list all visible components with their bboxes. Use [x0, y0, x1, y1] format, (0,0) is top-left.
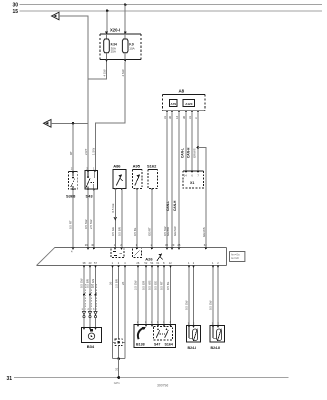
svg-text:2.5 SW: 2.5 SW: [134, 280, 138, 290]
module A79: [170, 100, 178, 107]
wire label S162 to bus: [148, 227, 152, 236]
wire label CAN-L lower: [166, 201, 170, 211]
blower B138 with switches S47 S164: [134, 325, 176, 348]
inline connectors B34 wires: [82, 312, 97, 318]
off-page arrow (top): [52, 12, 60, 20]
connector block on bus 2: [133, 249, 142, 258]
svg-text:0.5 BL: 0.5 BL: [133, 227, 137, 236]
wire A8 pin36 to X1: [185, 113, 187, 171]
svg-text:0.5 GN: 0.5 GN: [91, 279, 95, 288]
svg-text:CAN-L: CAN-L: [180, 148, 184, 158]
wire bus to B24-I pin1: [188, 268, 190, 326]
wire A8 pin14 to bus: [178, 113, 180, 248]
fuse F.9: [122, 34, 134, 60]
svg-text:30: 30: [12, 3, 18, 9]
node splice junction: [117, 357, 120, 360]
svg-text:CAN-H: CAN-H: [173, 200, 177, 211]
wire label CAN-H lower: [173, 200, 177, 211]
temperature sensor B24-I: [187, 322, 201, 350]
svg-text:0.5 GR: 0.5 GR: [142, 281, 146, 290]
svg-text:X1: X1: [190, 181, 194, 185]
wire label fuse F.9 output: [121, 69, 125, 76]
wire S162 to bus: [151, 189, 153, 248]
wire label S368 to bus: [69, 220, 73, 229]
wire S43 pin3 to bus: [93, 189, 95, 248]
node 15 rail label: [12, 9, 18, 15]
node 31 rail label: [6, 376, 12, 382]
wire splice to ground rail: [118, 359, 120, 378]
svg-text:0.5 BR: 0.5 BR: [118, 227, 122, 236]
wire A8 pin31 to bus: [166, 113, 168, 248]
svg-text:S368: S368: [66, 193, 76, 198]
node junction on rail 15: [106, 10, 109, 13]
pin arrows fuse box bottom: [105, 60, 127, 62]
svg-text:Am=Ga: Am=Ga: [231, 254, 240, 257]
actuation arrow K: [157, 254, 163, 261]
wire bus to B138 pin5: [163, 268, 165, 325]
temperature sensor B24-II: [210, 322, 225, 350]
wire label A86 pin2 lower: [118, 227, 122, 236]
svg-text:26: 26: [108, 281, 112, 285]
node 30 rail label: [12, 3, 18, 9]
svg-text:tie=GD: tie=GD: [231, 257, 239, 260]
ground point label GP1: [114, 381, 120, 385]
wire bus to B34 pin3: [95, 268, 97, 328]
shield dashes B34 wires: [85, 284, 97, 310]
wire rail30 to fuse F.9: [124, 5, 126, 34]
pin numbers B34 connectors: [82, 308, 96, 311]
wire bus to splice right: [124, 268, 126, 359]
svg-text:2.5 SW: 2.5 SW: [89, 219, 93, 229]
connector X1: [183, 171, 204, 188]
switch S368: [66, 167, 77, 199]
fuse F.34: [104, 34, 117, 60]
svg-text:CAN-L: CAN-L: [166, 201, 170, 211]
svg-text:0.5 WS: 0.5 WS: [148, 280, 152, 290]
wire labels B24-I drops: [185, 300, 189, 310]
label A26: [145, 256, 153, 261]
wire node to S368: [72, 123, 74, 171]
svg-text:X20-I: X20-I: [110, 28, 120, 33]
svg-text:26: 26: [121, 281, 125, 285]
wire middle arrow horizontal: [51, 122, 88, 124]
wire A95 to bus: [136, 189, 138, 249]
wire label fuse F.34 output: [103, 69, 107, 76]
switch S43: [85, 167, 98, 199]
clock B34: [82, 328, 102, 349]
node dots B34 wires: [83, 294, 97, 296]
control unit A8: [163, 89, 205, 111]
svg-text:GE/BR: GE/BR: [166, 227, 170, 236]
pin arrows bus bottom: [83, 266, 220, 268]
svg-text:0.5 GE: 0.5 GE: [111, 203, 115, 212]
wire label CAN-H color: [173, 226, 177, 236]
svg-text:RT: RT: [69, 151, 73, 155]
svg-text:15: 15: [12, 9, 18, 15]
connector block on bus 1: [111, 249, 124, 258]
pin arrows fuse box top: [105, 32, 127, 34]
wire bus to B34 pin2: [89, 268, 91, 328]
svg-text:0.5 RT: 0.5 RT: [69, 220, 73, 229]
wire from top arrow to node: [59, 16, 88, 170]
svg-text:GP1: GP1: [114, 381, 120, 385]
svg-text:2 RT: 2 RT: [84, 149, 88, 155]
wire bus to B24-I pin2: [193, 268, 195, 326]
wire splice merge: [113, 358, 126, 360]
svg-text:A86: A86: [113, 164, 121, 169]
svg-text:4 SW: 4 SW: [121, 69, 125, 76]
svg-text:A79: A79: [171, 102, 177, 106]
svg-text:B34: B34: [87, 344, 95, 349]
switch A95: [133, 164, 143, 191]
wire bus to B138 pin2: [137, 268, 139, 325]
svg-text:0.5 SW: 0.5 SW: [185, 300, 189, 310]
svg-text:GE/SW: GE/SW: [173, 226, 177, 236]
wire label A86 pin1 lower: [111, 227, 115, 236]
wire label A8 pin31 lower: [163, 226, 167, 236]
svg-text:0.5 SW: 0.5 SW: [209, 300, 213, 310]
wire label CAN-L upper: [180, 148, 184, 158]
svg-text:1 SW: 1 SW: [91, 148, 95, 155]
svg-text:2.5 BR: 2.5 BR: [115, 279, 119, 288]
wire rail 31 ground: [14, 377, 289, 379]
wire label A95 to bus: [133, 227, 137, 236]
svg-text:B24-I: B24-I: [188, 346, 197, 350]
wire label S43 pin2 drop: [84, 149, 88, 155]
wire rail 30: [20, 4, 323, 6]
svg-text:0.5 SW: 0.5 SW: [80, 278, 84, 288]
node junction on rail 30: [124, 3, 127, 6]
wire bus to B24-II pin1: [212, 268, 214, 326]
svg-text:S47: S47: [154, 343, 160, 347]
svg-text:B138: B138: [136, 343, 145, 347]
splice box: [113, 339, 126, 359]
wire A86 pin1 to bus: [115, 189, 117, 249]
switch S162: [147, 164, 158, 191]
svg-text:A8: A8: [179, 89, 185, 94]
svg-text:0.5 GE: 0.5 GE: [154, 281, 158, 290]
wire pin7 jog to bus: [198, 147, 206, 247]
pin numbers bus bottom: [83, 261, 220, 265]
svg-text:30079d: 30079d: [157, 384, 168, 388]
diagram number label: [157, 384, 168, 388]
wire label pin7 jog: [202, 227, 206, 237]
svg-text:4 SW: 4 SW: [103, 69, 107, 76]
svg-text:0.5 SW: 0.5 SW: [84, 219, 88, 229]
wire bus to B138 pin3: [157, 268, 159, 325]
wire A86 pin2 to bus: [121, 189, 123, 249]
wire label ground drop: [114, 367, 118, 371]
svg-text:A120: A120: [185, 102, 193, 106]
connector chevron on A86 wire: [114, 217, 117, 220]
svg-text:0.5 BR: 0.5 BR: [86, 279, 90, 288]
wire bus to splice mid: [118, 268, 120, 339]
wire fuse F.9 output jog: [95, 62, 125, 171]
wire label S368 drop: [69, 151, 73, 155]
svg-text:31: 31: [6, 376, 12, 382]
switch A86: [113, 164, 126, 191]
svg-text:0.5 RT: 0.5 RT: [160, 281, 164, 290]
pin numbers B138: [137, 321, 172, 324]
pin numbers A8: [163, 116, 198, 119]
module A120: [183, 100, 195, 107]
wire labels B138 drops: [134, 280, 171, 290]
node junction ground GP1: [117, 376, 120, 379]
wire A8 pin30b to X1: [191, 113, 193, 171]
wire label S43 pin6 to bus: [84, 219, 88, 229]
wire A8 pin3 to X1: [197, 113, 199, 171]
wire A8 pin30 to bus: [171, 113, 173, 248]
pin arrows bus top: [72, 248, 208, 250]
wire label S43 pin1 drop: [91, 148, 95, 155]
wire label CAN-H upper: [186, 147, 190, 158]
wire labels B24-II drops: [209, 300, 213, 310]
node junction to S368: [72, 122, 75, 125]
wire label pin3 upper: [192, 148, 196, 158]
svg-text:GR/WS: GR/WS: [192, 148, 196, 158]
wire bus to B138 pin1: [151, 268, 153, 325]
wire labels splice drops: [108, 279, 125, 288]
off-page arrow (middle): [44, 120, 52, 128]
wire fuse F.34 output jog: [88, 62, 107, 80]
svg-text:10A: 10A: [129, 46, 134, 50]
svg-text:S43: S43: [86, 193, 94, 198]
wire S368 to bus: [72, 189, 74, 248]
wire bus to B138 pin4: [145, 268, 147, 325]
svg-text:CAN-H: CAN-H: [186, 147, 190, 158]
wire rail 15: [20, 10, 323, 12]
node junction pin7: [197, 146, 200, 149]
bus connector strip A26: [37, 248, 227, 266]
wire bus to B138 pin6: [170, 268, 172, 325]
note box: [230, 252, 245, 262]
svg-text:0.5 GE: 0.5 GE: [111, 227, 115, 236]
wire label A86 pin1 upper: [111, 203, 115, 212]
svg-text:GE/WS: GE/WS: [202, 227, 206, 237]
svg-text:A26: A26: [145, 256, 153, 261]
wire bus to B24-II pin2: [217, 268, 219, 326]
svg-text:S162: S162: [147, 164, 157, 169]
fuse box X20-I: [100, 28, 141, 60]
svg-text:B24-II: B24-II: [211, 346, 221, 350]
wire bus to B34 pin1: [83, 268, 85, 328]
svg-text:0.5 BL: 0.5 BL: [166, 281, 170, 290]
wire S43 pin6 to bus: [87, 189, 89, 248]
wire label S43 pin3 to bus: [89, 219, 93, 229]
svg-text:31: 31: [114, 367, 118, 371]
svg-text:A95: A95: [133, 164, 141, 169]
wire bus to splice left: [112, 268, 114, 359]
svg-text:S164: S164: [165, 343, 173, 347]
svg-text:25A: 25A: [111, 50, 116, 54]
wire rail15 to fuse F.34: [106, 11, 108, 34]
pin arrows A8: [166, 111, 200, 113]
wire labels B34 drops: [80, 278, 96, 288]
pin numbers bus top: [71, 243, 207, 253]
svg-text:GE/RT: GE/RT: [148, 227, 152, 236]
wire label CAN-L color: [166, 227, 170, 236]
